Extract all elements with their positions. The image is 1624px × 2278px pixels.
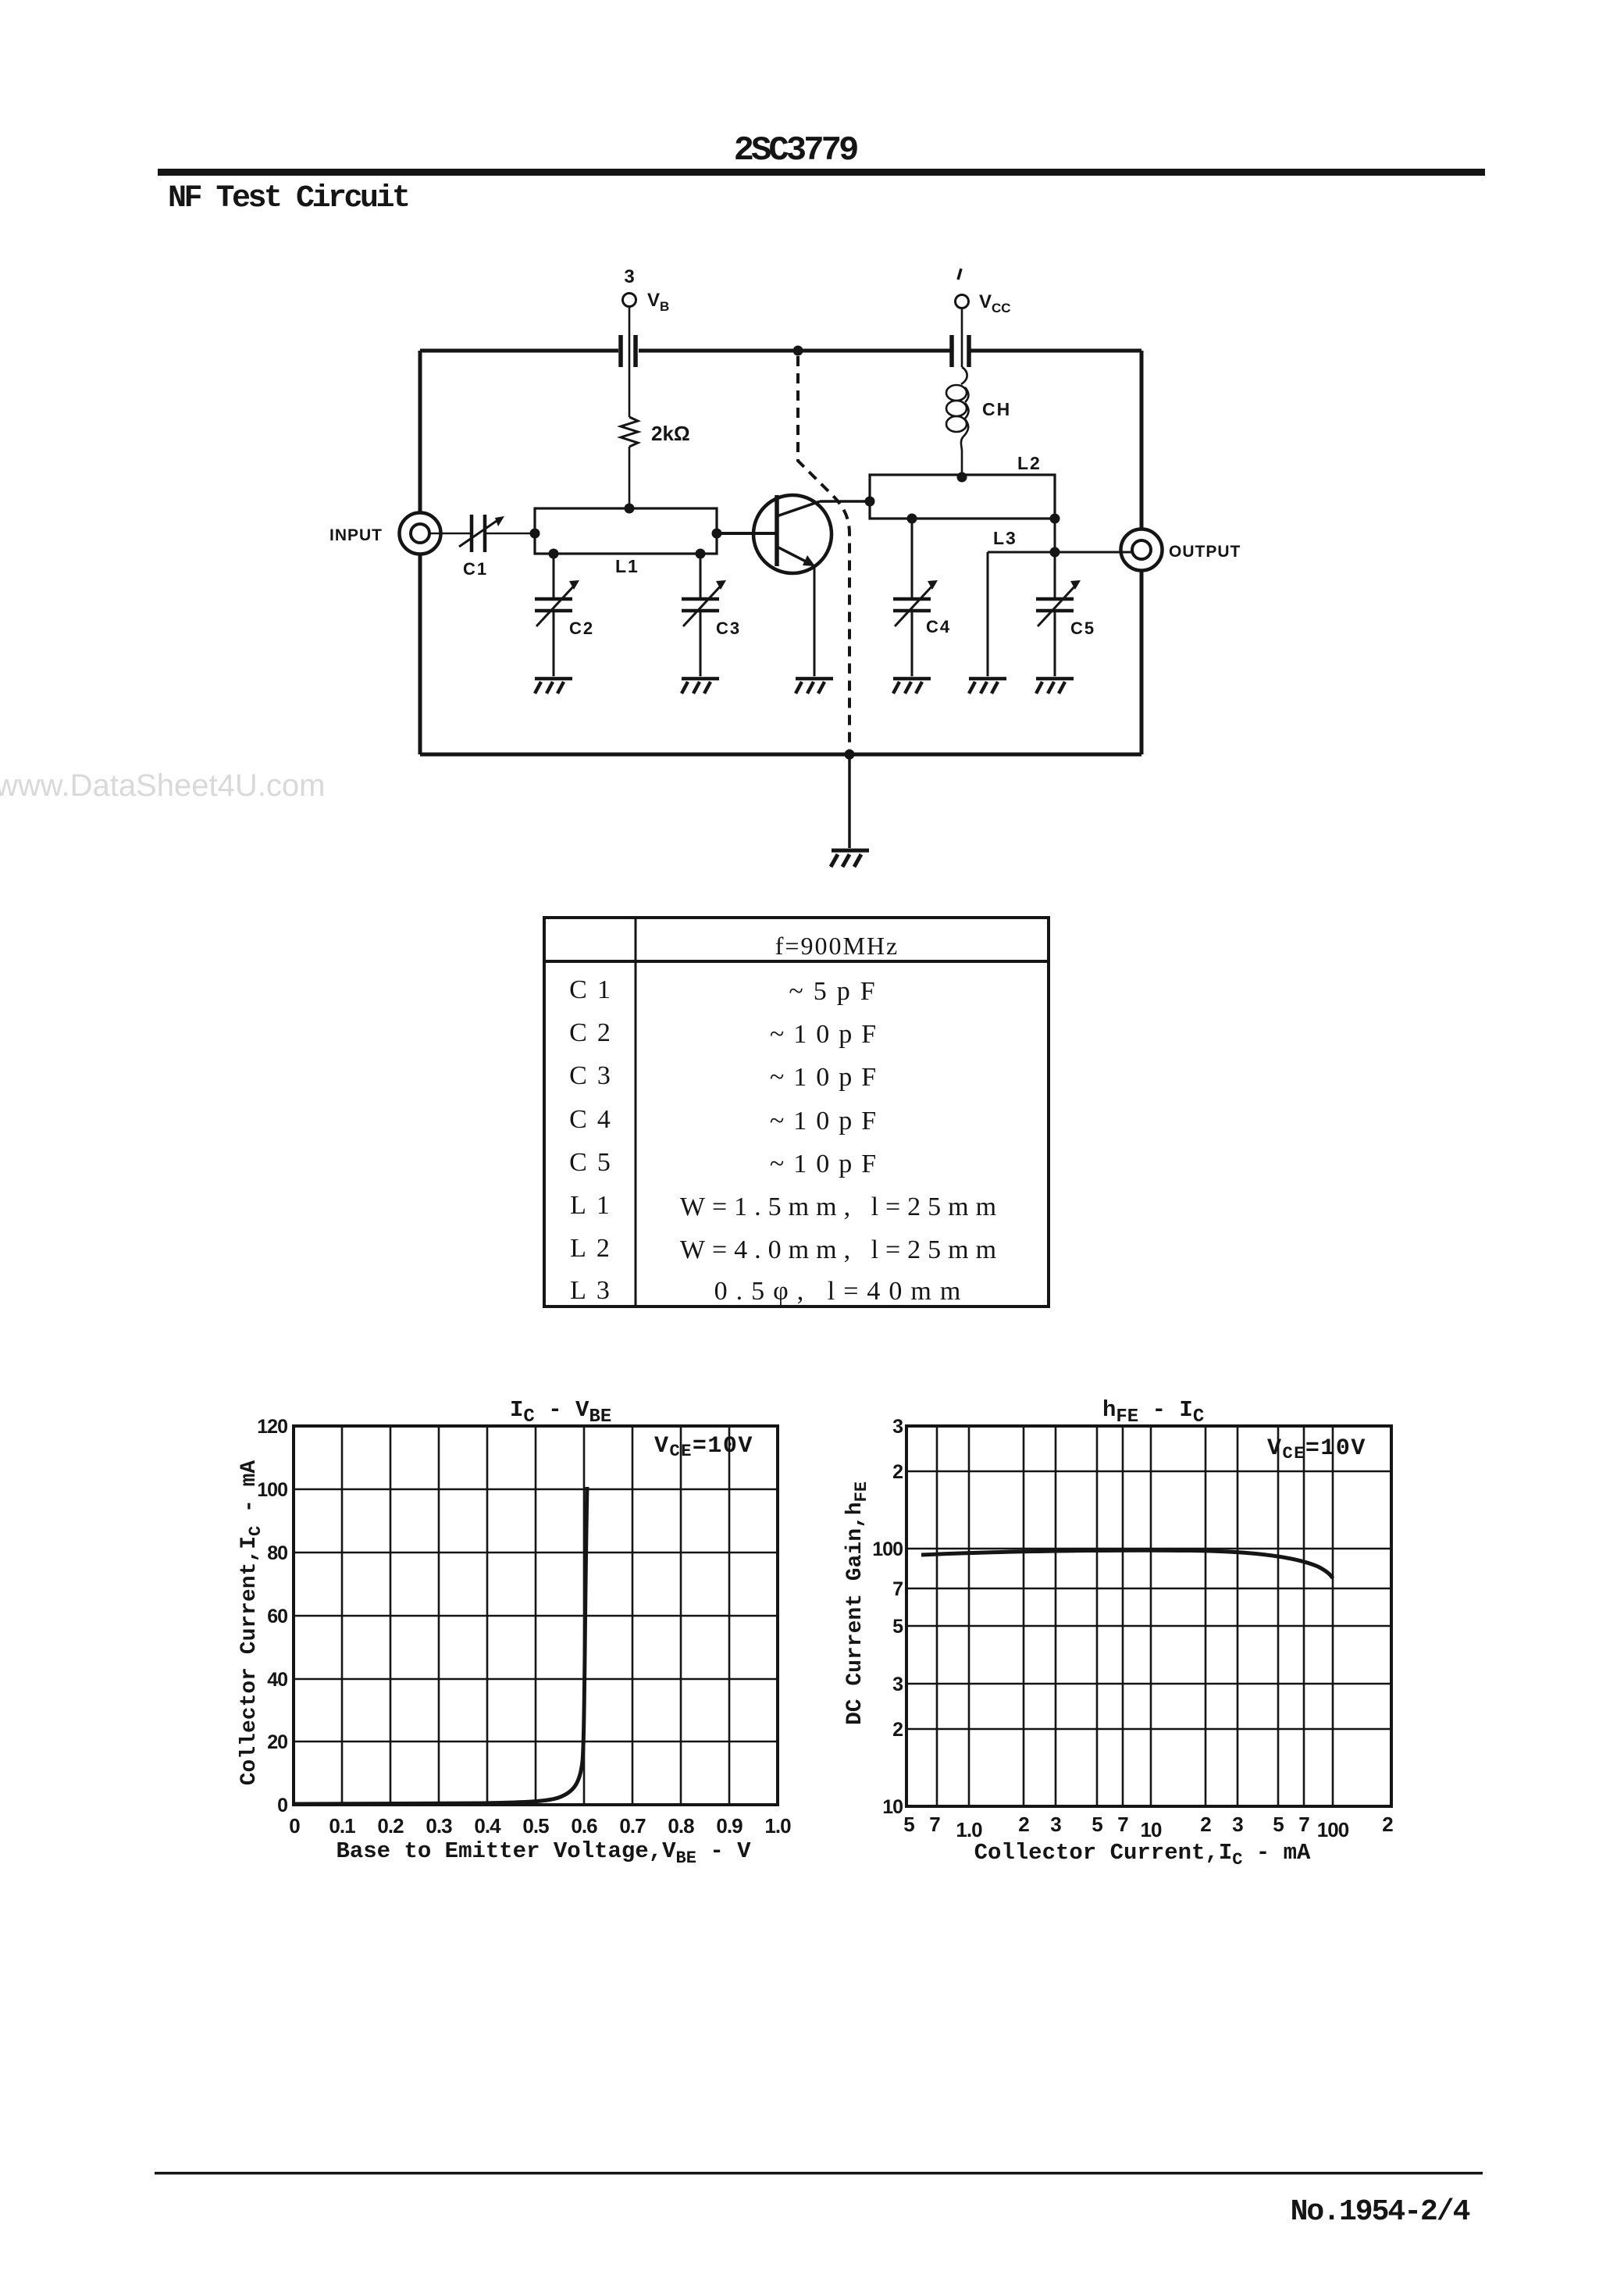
svg-text:0: 0 bbox=[277, 1795, 287, 1816]
svg-text:2: 2 bbox=[1200, 1813, 1211, 1836]
node CH to L2 bbox=[957, 472, 967, 483]
svg-text:0.8: 0.8 bbox=[668, 1814, 694, 1838]
wire output line bbox=[988, 551, 1132, 554]
grid horizontal (log) bbox=[906, 1471, 1391, 1729]
x axis numbers bbox=[289, 1814, 791, 1838]
ground for C3 bbox=[682, 679, 719, 693]
svg-text:No.1954-2/4: No.1954-2/4 bbox=[1291, 2195, 1470, 2229]
svg-text:W=1.5mm, l=25mm: W=1.5mm, l=25mm bbox=[680, 1192, 1003, 1221]
node L1 left bbox=[530, 529, 540, 539]
wire dashed case/shield line bbox=[798, 356, 849, 751]
node L1 bottom C2 bbox=[549, 549, 559, 559]
capacitor bypass at VCC (plates) bbox=[952, 335, 969, 367]
svg-text:7: 7 bbox=[892, 1578, 903, 1600]
svg-text:5: 5 bbox=[903, 1813, 914, 1836]
svg-text:5: 5 bbox=[1273, 1813, 1284, 1836]
svg-text:~5pF: ~5pF bbox=[789, 977, 885, 1006]
grid horizontal bbox=[294, 1489, 778, 1741]
wire VB to resistor bbox=[629, 307, 631, 417]
resistor R1 2kΩ bbox=[621, 417, 638, 447]
svg-text:2: 2 bbox=[1382, 1813, 1393, 1836]
svg-text:C2: C2 bbox=[569, 1018, 621, 1047]
connector INPUT bbox=[400, 513, 441, 554]
svg-text:1.0: 1.0 bbox=[956, 1818, 982, 1841]
svg-text:W=4.0mm, l=25mm: W=4.0mm, l=25mm bbox=[680, 1235, 1003, 1264]
graph hFE-IC bbox=[906, 1426, 1391, 1806]
node bottom rail junction bbox=[845, 750, 855, 760]
wire outer left rail bbox=[418, 351, 422, 754]
node L1 bottom C3 bbox=[696, 549, 706, 559]
svg-text:3: 3 bbox=[1050, 1813, 1061, 1836]
inductor CH (choke) bbox=[961, 367, 967, 384]
svg-text:0.6: 0.6 bbox=[571, 1814, 597, 1838]
svg-text:VB: VB bbox=[647, 290, 669, 314]
svg-text:C2: C2 bbox=[569, 619, 594, 638]
ground for C4 bbox=[893, 679, 931, 693]
curve IC-VBE bbox=[295, 1487, 587, 1804]
svg-text:Base to Emitter Voltage,VBE -: Base to Emitter Voltage,VBE - V bbox=[336, 1838, 751, 1868]
svg-text:VCE=10V: VCE=10V bbox=[654, 1433, 753, 1461]
svg-text:C4: C4 bbox=[569, 1105, 621, 1134]
svg-text:0.4: 0.4 bbox=[474, 1814, 501, 1838]
svg-text:INPUT: INPUT bbox=[329, 526, 383, 544]
svg-text:7: 7 bbox=[1298, 1813, 1309, 1836]
svg-text:OUTPUT: OUTPUT bbox=[1169, 543, 1241, 561]
table of values bbox=[544, 918, 1049, 1307]
svg-text:C3: C3 bbox=[716, 619, 741, 638]
svg-text:L3: L3 bbox=[570, 1276, 620, 1305]
node L2 left collector bbox=[865, 497, 875, 507]
svg-text:2: 2 bbox=[1018, 1813, 1029, 1836]
node junction VB-L1 bbox=[625, 504, 635, 514]
ground for emitter bbox=[796, 679, 833, 693]
svg-text:0.5φ, l=40mm: 0.5φ, l=40mm bbox=[714, 1277, 970, 1306]
svg-text:100: 100 bbox=[872, 1538, 903, 1560]
graph IC-VBE bbox=[294, 1426, 778, 1805]
wire L1 to base bbox=[717, 532, 775, 535]
curve hFE-IC bbox=[921, 1550, 1333, 1578]
capacitor bypass at VB (plates) bbox=[621, 335, 636, 367]
capacitor C2 (variable to ground) bbox=[553, 554, 555, 676]
ground for C2 bbox=[535, 679, 572, 693]
svg-text:Collector Current,IC - mA: Collector Current,IC - mA bbox=[974, 1840, 1311, 1870]
svg-text:hFE - IC: hFE - IC bbox=[1102, 1397, 1204, 1428]
ground for L3 bbox=[969, 679, 1006, 693]
svg-text:2: 2 bbox=[892, 1461, 903, 1483]
svg-text:CH: CH bbox=[982, 399, 1011, 419]
svg-text:~10pF: ~10pF bbox=[770, 1150, 885, 1178]
capacitor C1 (variable, series) bbox=[472, 515, 485, 552]
ground for C5 bbox=[1036, 679, 1074, 693]
svg-text:3: 3 bbox=[892, 1416, 903, 1438]
svg-text:0.2: 0.2 bbox=[377, 1814, 404, 1838]
capacitor C3 (variable to ground) bbox=[700, 554, 702, 676]
svg-text:C1: C1 bbox=[569, 975, 621, 1004]
node L2 bottom right bbox=[1050, 514, 1060, 524]
svg-text:L1: L1 bbox=[615, 556, 639, 576]
svg-text:3: 3 bbox=[892, 1674, 903, 1695]
svg-text:L2: L2 bbox=[1017, 453, 1042, 473]
svg-text:~10pF: ~10pF bbox=[770, 1020, 885, 1049]
svg-text:L2: L2 bbox=[570, 1234, 620, 1263]
svg-text:100: 100 bbox=[257, 1479, 287, 1501]
transistor Q1 2SC3779 bbox=[753, 495, 832, 573]
svg-text:10: 10 bbox=[882, 1796, 903, 1818]
x axis numbers bbox=[903, 1813, 1393, 1841]
svg-text:2: 2 bbox=[892, 1719, 903, 1741]
svg-text:7: 7 bbox=[1117, 1813, 1128, 1836]
node L1 right bbox=[712, 529, 722, 539]
connector OUTPUT bbox=[1121, 529, 1163, 571]
terminal VCC bbox=[956, 295, 969, 308]
grid vertical bbox=[342, 1426, 729, 1805]
wire L2 right to output line bbox=[1054, 519, 1056, 552]
svg-text:~10pF: ~10pF bbox=[770, 1107, 885, 1135]
svg-text:0.7: 0.7 bbox=[619, 1814, 646, 1838]
svg-text:3: 3 bbox=[624, 266, 634, 287]
svg-text:7: 7 bbox=[929, 1813, 940, 1836]
svg-text:VCE=10V: VCE=10V bbox=[1267, 1435, 1366, 1463]
svg-text:C5: C5 bbox=[1070, 619, 1095, 638]
svg-text:2kΩ: 2kΩ bbox=[651, 422, 690, 445]
svg-text:C3: C3 bbox=[569, 1061, 621, 1090]
wire C1 to L1 bbox=[485, 533, 534, 535]
wire outer top rail bbox=[420, 349, 1141, 353]
header rule bbox=[158, 169, 1485, 176]
svg-text:120: 120 bbox=[257, 1416, 287, 1438]
svg-text:0.9: 0.9 bbox=[716, 1814, 743, 1838]
capacitor C5 (variable to ground) bbox=[1054, 552, 1056, 676]
svg-text:80: 80 bbox=[267, 1542, 287, 1564]
svg-text:VCC: VCC bbox=[979, 291, 1011, 315]
wire collector to L2 bbox=[820, 500, 870, 503]
svg-text:C1: C1 bbox=[463, 559, 488, 579]
svg-text:100: 100 bbox=[1317, 1818, 1349, 1841]
footer rule bbox=[155, 2172, 1483, 2175]
svg-text:3: 3 bbox=[1232, 1813, 1243, 1836]
svg-text:0: 0 bbox=[289, 1814, 300, 1838]
y axis numbers bbox=[872, 1416, 903, 1818]
wire outer bottom rail bbox=[420, 753, 1141, 757]
watermark bbox=[0, 768, 325, 804]
svg-text:60: 60 bbox=[267, 1606, 287, 1627]
node output line bbox=[1050, 547, 1060, 558]
svg-text:40: 40 bbox=[267, 1669, 287, 1691]
wire outer right rail bbox=[1140, 351, 1144, 754]
inductor L1 (strip line) bbox=[535, 508, 717, 554]
svg-text:5: 5 bbox=[1092, 1813, 1102, 1836]
terminal VB bbox=[623, 294, 636, 307]
plot frame bbox=[906, 1426, 1391, 1806]
node L2 bottom C4 bbox=[907, 514, 917, 524]
wire input to C1 bbox=[430, 533, 472, 535]
grid vertical (log) bbox=[937, 1426, 1333, 1806]
svg-text:0.5: 0.5 bbox=[522, 1814, 549, 1838]
svg-text:20: 20 bbox=[267, 1731, 287, 1753]
plot frame bbox=[294, 1426, 778, 1805]
capacitor C4 (variable to ground) bbox=[911, 519, 913, 676]
svg-text:0.1: 0.1 bbox=[329, 1814, 355, 1838]
wire bottom to main ground bbox=[848, 754, 851, 848]
svg-text:10: 10 bbox=[1141, 1818, 1162, 1841]
svg-text:1.0: 1.0 bbox=[764, 1814, 791, 1838]
svg-text:~10pF: ~10pF bbox=[770, 1063, 885, 1092]
svg-text:C4: C4 bbox=[926, 617, 951, 636]
scan marks (noise) bbox=[0, 0, 1, 1]
wire resistor to L1 bbox=[629, 447, 631, 508]
ground main bbox=[831, 850, 869, 867]
svg-text:Collector Current,IC - mA: Collector Current,IC - mA bbox=[237, 1460, 265, 1786]
svg-text:L3: L3 bbox=[993, 528, 1017, 548]
svg-text:2SC3779: 2SC3779 bbox=[734, 131, 857, 170]
svg-text:f=900MHz: f=900MHz bbox=[775, 932, 899, 960]
wire emitter down bbox=[814, 567, 816, 676]
svg-text:IC - VBE: IC - VBE bbox=[510, 1397, 611, 1428]
node top rail junction bbox=[793, 346, 803, 356]
svg-text:NF Test Circuit: NF Test Circuit bbox=[168, 181, 408, 216]
svg-text:DC Current Gain,hFE: DC Current Gain,hFE bbox=[843, 1481, 871, 1725]
wire VCC down bbox=[961, 308, 963, 367]
svg-text:L1: L1 bbox=[570, 1191, 620, 1220]
y axis numbers bbox=[257, 1416, 287, 1816]
svg-text:C5: C5 bbox=[569, 1148, 621, 1177]
svg-text:0.3: 0.3 bbox=[426, 1814, 452, 1838]
node pin 1 bbox=[958, 269, 961, 280]
svg-text:5: 5 bbox=[892, 1616, 903, 1638]
